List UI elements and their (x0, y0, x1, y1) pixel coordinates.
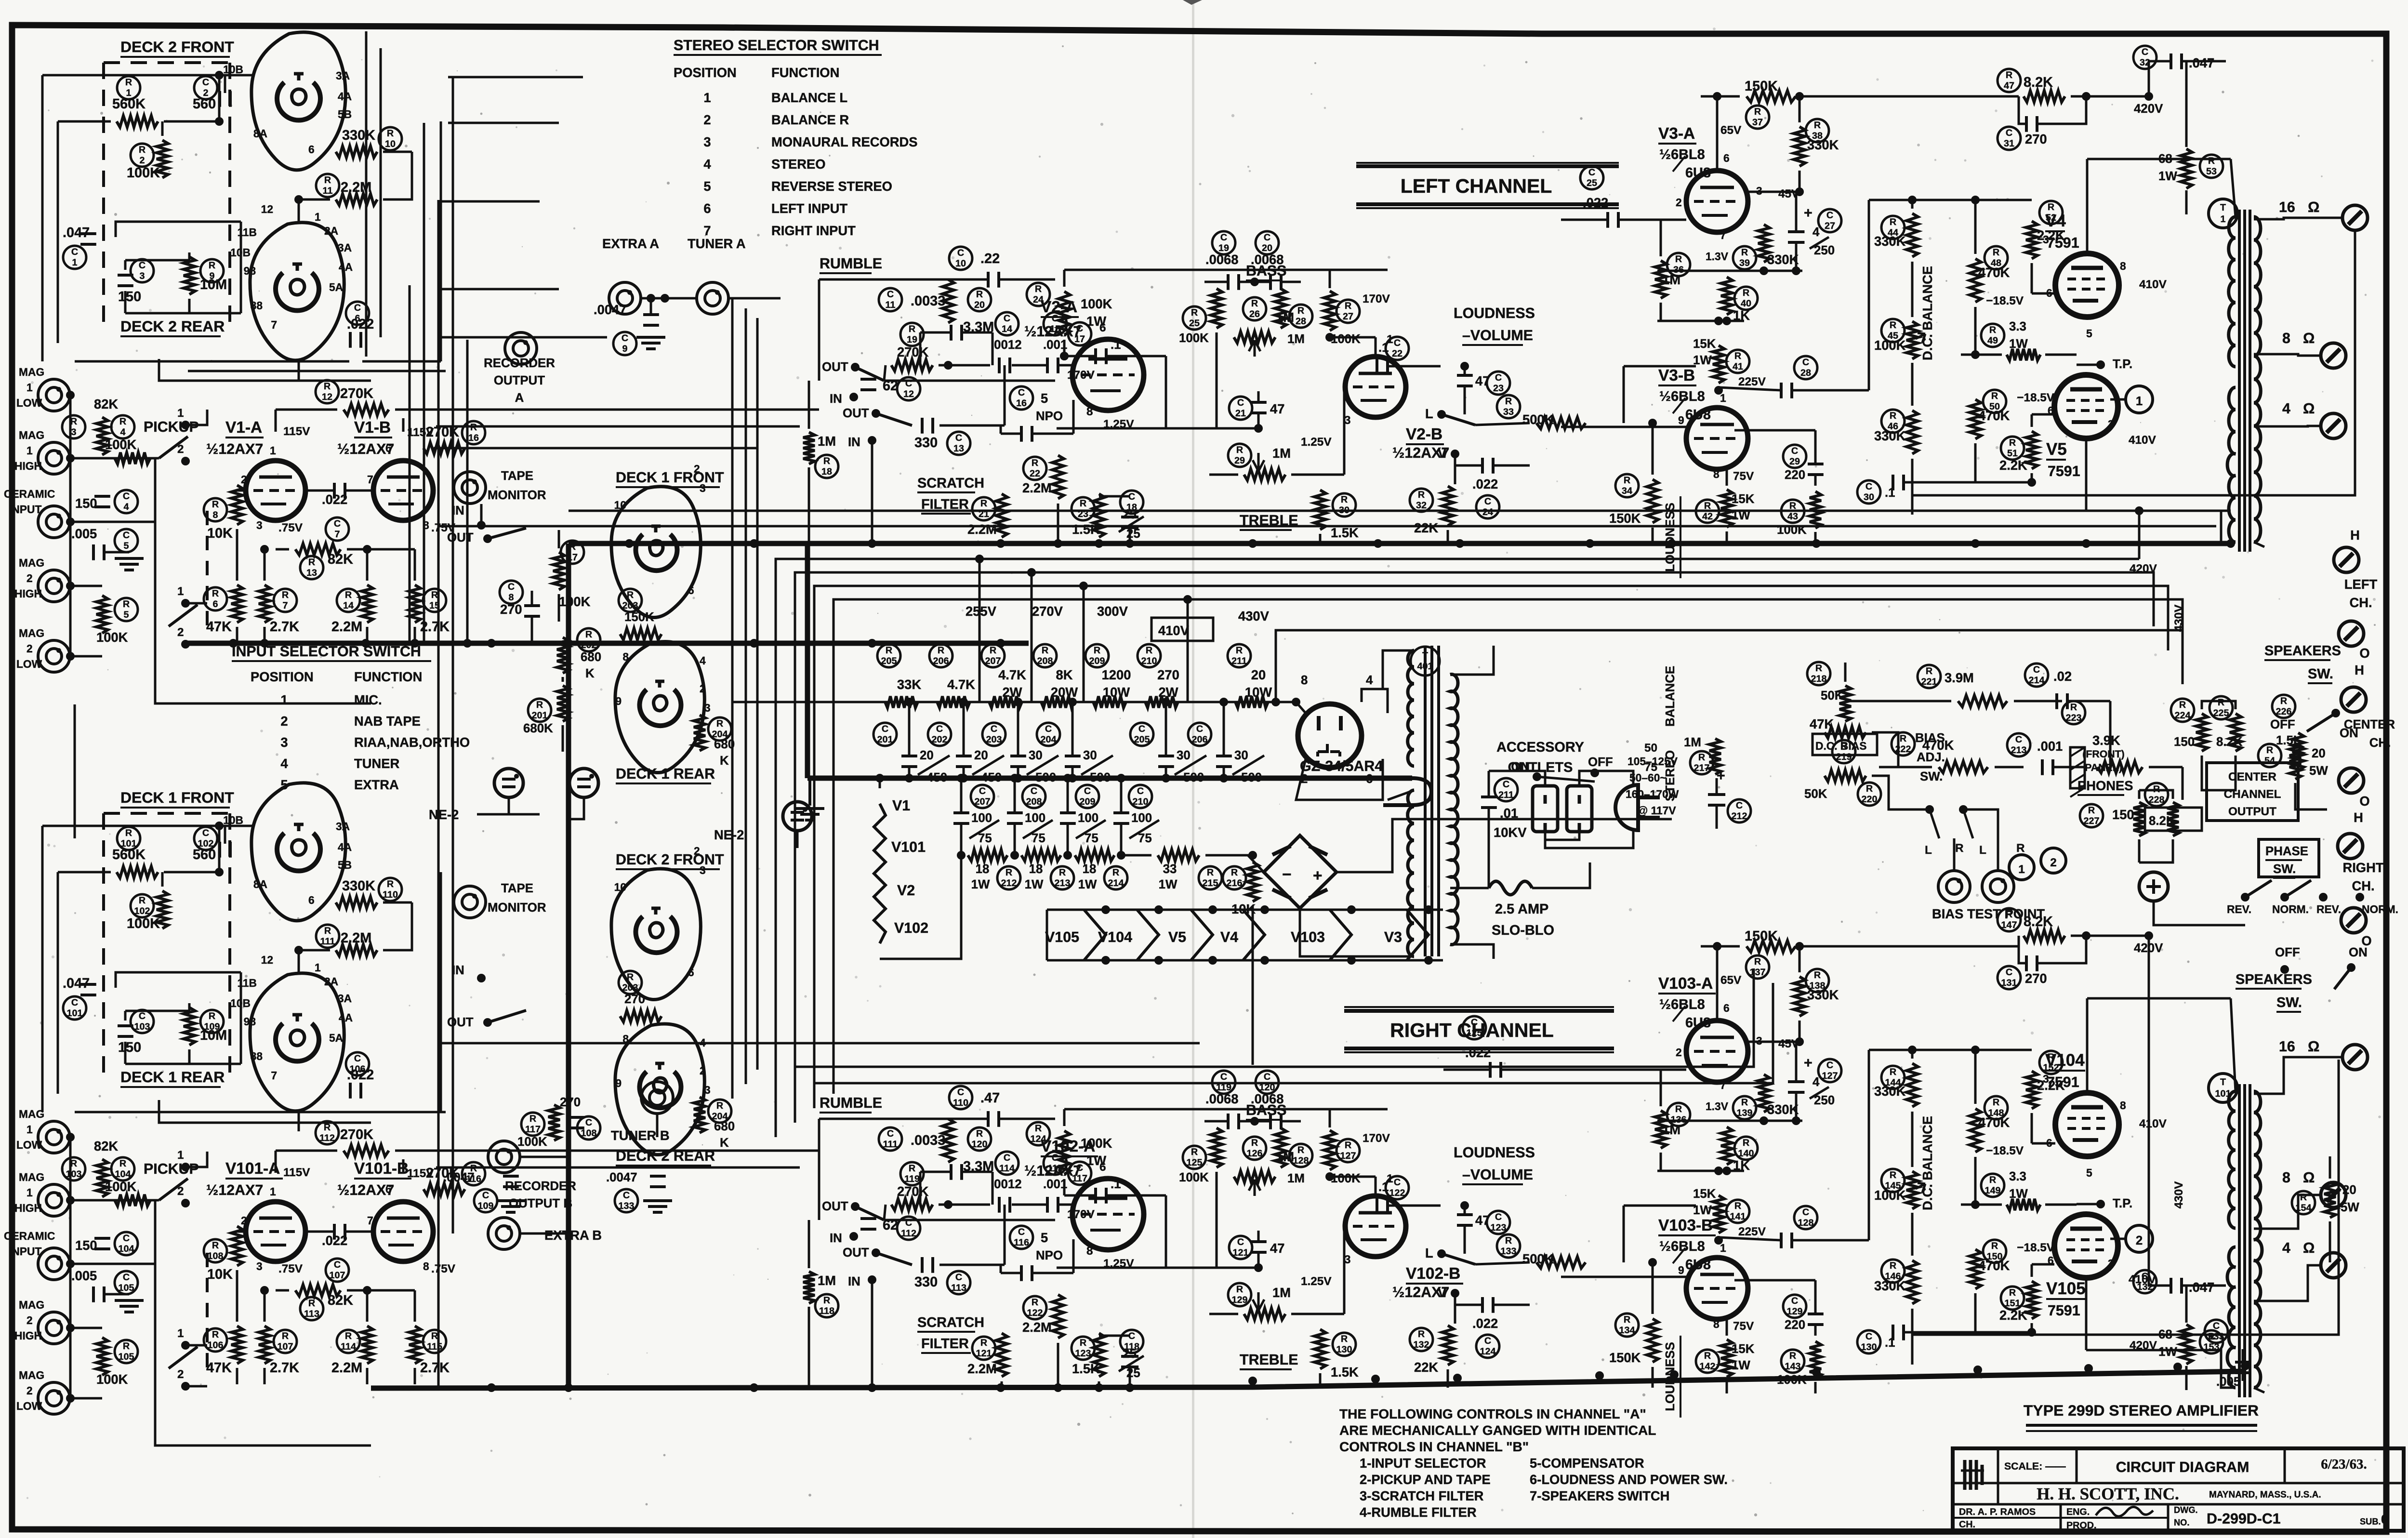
jack EXTRA B (488, 1218, 520, 1249)
lamp NE-2 no.1 (494, 769, 523, 797)
resistor R12 270K (316, 380, 339, 403)
svg-text:25: 25 (1123, 1347, 1137, 1361)
svg-text:216: 216 (1227, 878, 1243, 888)
svg-text:R: R (123, 1341, 130, 1352)
svg-text:270K: 270K (897, 345, 929, 359)
svg-text:75: 75 (1085, 832, 1098, 845)
svg-text:R: R (2179, 700, 2186, 710)
svg-text:R: R (2009, 438, 2016, 448)
resistor R127 100K (1324, 1130, 1336, 1170)
svg-text:75: 75 (1032, 832, 1045, 845)
svg-text:DECK 1 FRONT: DECK 1 FRONT (120, 789, 234, 806)
svg-text:150K: 150K (1609, 511, 1641, 526)
transformer T1 secondary winding (2254, 217, 2261, 542)
svg-text:125: 125 (1187, 1157, 1203, 1168)
wire GZ34 plate leads (1296, 702, 1306, 713)
svg-text:98: 98 (244, 265, 256, 277)
svg-text:560K: 560K (112, 96, 146, 112)
capacitor C16 5 NPO (1010, 386, 1033, 410)
svg-text:1.25V: 1.25V (1301, 436, 1332, 449)
svg-text:27: 27 (1825, 221, 1835, 231)
svg-text:98: 98 (244, 1015, 256, 1028)
wire feedback line (1057, 1267, 1258, 1269)
svg-text:114: 114 (341, 1341, 356, 1352)
svg-text:150: 150 (118, 289, 141, 305)
resistor R212 18 1W (968, 849, 1007, 861)
svg-text:INPUT SELECTOR SWITCH: INPUT SELECTOR SWITCH (232, 643, 421, 660)
resistor R136 1M (1667, 1103, 1690, 1126)
svg-text:R: R (585, 629, 592, 640)
svg-text:8: 8 (1301, 674, 1308, 687)
svg-text:115V: 115V (283, 1166, 310, 1179)
svg-text:226: 226 (2276, 706, 2292, 717)
svg-text:680: 680 (714, 1120, 735, 1133)
triode V102-B 1/2 12AX7 (1345, 1196, 1406, 1257)
transformer T101 ref (2209, 1074, 2237, 1102)
svg-text:O: O (2359, 794, 2369, 809)
svg-text:LOUDNESS: LOUDNESS (1664, 1342, 1677, 1411)
svg-text:47: 47 (1270, 1241, 1284, 1256)
svg-text:H. H. SCOTT, INC.: H. H. SCOTT, INC. (2037, 1485, 2179, 1503)
svg-text:T: T (2220, 1077, 2226, 1087)
svg-text:C: C (123, 491, 130, 502)
resistor R30 1.5K (1314, 490, 1326, 530)
svg-text:270: 270 (560, 1096, 581, 1109)
resistor R54 20 5W (2258, 744, 2281, 767)
svg-text:206: 206 (1192, 734, 1208, 745)
svg-text:−18.5V: −18.5V (2017, 1241, 2055, 1254)
svg-text:R: R (1900, 733, 1906, 744)
svg-text:7: 7 (1720, 229, 1726, 241)
svg-text:3.9M: 3.9M (1945, 670, 1974, 685)
svg-text:6: 6 (703, 201, 711, 216)
svg-text:−18.5V: −18.5V (2017, 391, 2055, 404)
svg-text:.47: .47 (980, 1090, 1000, 1106)
svg-text:30: 30 (1029, 749, 1043, 762)
svg-text:8: 8 (1086, 1245, 1093, 1258)
svg-text:47K: 47K (206, 619, 232, 635)
svg-text:8: 8 (2120, 260, 2126, 272)
svg-text:R: R (1890, 1170, 1896, 1180)
svg-text:V3-A: V3-A (1658, 125, 1695, 143)
capacitor C108 270 (577, 1116, 600, 1140)
svg-text:1.3V: 1.3V (1706, 250, 1729, 263)
svg-text:+: + (1313, 867, 1323, 885)
svg-text:.005: .005 (71, 526, 97, 541)
svg-text:100K: 100K (1081, 296, 1112, 311)
svg-text:3.3: 3.3 (2009, 1170, 2026, 1183)
svg-text:1W: 1W (1025, 878, 1044, 891)
resistor R6 47K (204, 587, 227, 610)
svg-text:R: R (1989, 1175, 1996, 1185)
svg-text:MAYNARD, MASS., U.S.A.: MAYNARD, MASS., U.S.A. (2209, 1490, 2321, 1500)
svg-text:1W: 1W (1693, 354, 1712, 367)
svg-text:C: C (1076, 1163, 1083, 1173)
resistor R148 470K (1985, 1096, 2008, 1119)
capacitor C211 .01 10KV (1495, 778, 1518, 801)
svg-text:3.3M: 3.3M (963, 319, 994, 335)
svg-text:C: C (139, 1011, 146, 1021)
svg-text:C: C (1394, 338, 1401, 348)
svg-text:330K: 330K (1874, 1084, 1906, 1099)
svg-text:CH.: CH. (2352, 878, 2374, 893)
svg-text:ADJ.: ADJ. (1917, 751, 1945, 764)
resistor R20 3.3M (942, 279, 954, 323)
svg-text:R: R (1236, 645, 1243, 656)
svg-text:5B: 5B (338, 859, 352, 871)
svg-text:3: 3 (700, 482, 706, 494)
wire bundle vertical left of tape monitor (409, 285, 411, 643)
svg-text:15K: 15K (1693, 1187, 1716, 1201)
resistor R2 100K (131, 144, 154, 167)
resistor R203 150K (619, 589, 642, 612)
svg-text:107: 107 (278, 1341, 293, 1352)
wire long horizontals under left channel (569, 510, 2231, 512)
svg-text:110: 110 (383, 889, 398, 900)
svg-text:130: 130 (1336, 1344, 1352, 1355)
svg-text:214: 214 (1108, 878, 1124, 888)
svg-text:SW.: SW. (2273, 862, 2296, 876)
ground power supply (808, 778, 811, 806)
svg-text:V4: V4 (1220, 929, 1238, 945)
capacitor C206 30/500 (1188, 723, 1211, 746)
svg-text:K: K (720, 754, 729, 768)
svg-text:STEREO: STEREO (771, 157, 826, 172)
svg-text:100K: 100K (1331, 332, 1361, 346)
svg-text:D.C. BIAS: D.C. BIAS (1815, 740, 1866, 752)
svg-text:19: 19 (907, 334, 917, 345)
resistor R140 1K (1734, 1137, 1758, 1160)
svg-text:.75V: .75V (278, 521, 303, 534)
svg-text:C: C (1137, 786, 1144, 796)
label D.C. BIAS (1813, 734, 1877, 755)
svg-text:24: 24 (1482, 507, 1493, 517)
svg-text:R: R (1341, 1334, 1348, 1344)
svg-text:3: 3 (704, 1084, 711, 1096)
transformer T1 primary windings (2229, 217, 2236, 367)
svg-text:5: 5 (2086, 327, 2092, 340)
svg-text:R: R (2009, 1287, 2016, 1298)
capacitor C117 .1 (1068, 1162, 1091, 1185)
svg-text:5B: 5B (338, 108, 352, 120)
svg-text:2.2M: 2.2M (331, 1360, 362, 1376)
resistor R132 22K (1410, 1328, 1433, 1351)
svg-text:R: R (1251, 1138, 1258, 1148)
resistor R39 330K (1733, 246, 1756, 269)
svg-text:75V: 75V (1733, 1320, 1754, 1333)
svg-text:4A: 4A (339, 1011, 353, 1024)
svg-text:OUT: OUT (822, 360, 848, 374)
svg-text:FUNCTION: FUNCTION (771, 65, 839, 80)
capacitor 10C4 150 (94, 1238, 110, 1249)
svg-text:C: C (1588, 167, 1595, 178)
resistor R118 1M (803, 1272, 815, 1303)
bridge rectifier bias supply (1264, 835, 1336, 908)
svg-text:3: 3 (2043, 1073, 2049, 1085)
svg-text:TAPE: TAPE (501, 882, 533, 895)
resistor R104 100K (111, 1157, 134, 1180)
svg-text:C: C (354, 1053, 361, 1064)
resistor R46 330K (1881, 410, 1905, 433)
capacitor C116 5 NPO (1010, 1226, 1033, 1249)
wire right channel loudness to driver (1619, 1059, 1696, 1206)
svg-text:4A: 4A (338, 841, 352, 853)
svg-text:220: 220 (1785, 468, 1805, 482)
svg-text:CH.: CH. (1959, 1519, 1975, 1530)
svg-text:150: 150 (75, 496, 97, 511)
wire B+ chain (732, 701, 1296, 703)
svg-text:20: 20 (974, 749, 988, 762)
svg-text:207: 207 (985, 656, 1001, 666)
svg-text:C: C (882, 724, 888, 734)
svg-text:DWG.: DWG. (2174, 1505, 2198, 1515)
svg-text:R: R (212, 1240, 219, 1251)
resistor R15 2.7K (423, 589, 446, 612)
test point circled 2 (2041, 848, 2066, 873)
accessory outlet socket 2 (1567, 786, 1592, 832)
svg-text:R: R (324, 175, 331, 186)
svg-text:R: R (70, 1158, 77, 1169)
capacitor C125 .022 (1463, 1016, 1486, 1039)
svg-text:1M: 1M (1287, 1172, 1305, 1185)
svg-text:255V: 255V (966, 604, 997, 619)
svg-text:7: 7 (271, 1069, 277, 1082)
svg-text:C: C (334, 518, 341, 529)
svg-text:MAG: MAG (19, 1299, 44, 1311)
svg-text:1M: 1M (1684, 736, 1701, 749)
svg-text:.01: .01 (1500, 806, 1518, 821)
svg-text:4: 4 (124, 502, 129, 512)
capacitor C10 .22 (949, 247, 972, 270)
rotary switch wafer front (251, 783, 345, 921)
svg-text:100K: 100K (1081, 1136, 1112, 1151)
capacitor C13 330 (922, 418, 933, 434)
capacitor C207 100/75 (971, 785, 994, 808)
svg-text:54: 54 (2264, 756, 2275, 766)
svg-text:NPO: NPO (1036, 1249, 1063, 1262)
svg-text:C: C (1826, 1060, 1833, 1071)
svg-text:V105: V105 (1045, 929, 1079, 945)
svg-text:1M: 1M (818, 434, 836, 449)
svg-text:L: L (1925, 844, 1932, 857)
capacitor C201 20/450 (873, 723, 897, 746)
svg-text:R: R (1991, 1241, 1998, 1251)
svg-text:INPUT: INPUT (9, 503, 41, 516)
svg-text:9: 9 (1678, 414, 1684, 426)
wire right channel B+ feeds (776, 1137, 1029, 1138)
svg-text:330: 330 (914, 1274, 938, 1290)
svg-text:2.2M: 2.2M (967, 1361, 997, 1376)
capacitor C203 30/500 (982, 723, 1006, 746)
svg-text:C: C (1076, 323, 1083, 334)
svg-text:MAG: MAG (19, 1108, 44, 1120)
svg-text:SW.: SW. (2308, 666, 2333, 682)
resistor R45 100K (1881, 319, 1905, 342)
wire phones network (2139, 790, 2173, 799)
svg-text:129: 129 (1787, 1306, 1803, 1317)
svg-text:250: 250 (1814, 1094, 1835, 1107)
resistor R134 150K (1615, 1313, 1639, 1337)
svg-text:29: 29 (1234, 455, 1245, 466)
resistor R206 4.7K (929, 644, 953, 667)
svg-text:4A: 4A (338, 90, 352, 103)
svg-text:SW.: SW. (1920, 770, 1943, 783)
svg-text:14: 14 (1002, 324, 1012, 334)
resistor R13 82K (295, 544, 341, 555)
center channel jack (2139, 872, 2168, 901)
svg-text:330K: 330K (1767, 1102, 1799, 1117)
svg-text:11: 11 (886, 300, 896, 310)
svg-text:680: 680 (581, 650, 601, 664)
resistor R205 33K (877, 644, 900, 667)
resistor R145 100K (1881, 1169, 1905, 1192)
svg-text:3: 3 (703, 134, 711, 149)
svg-text:DECK 2 REAR: DECK 2 REAR (120, 318, 225, 335)
svg-text:LOUDNESS: LOUDNESS (1454, 305, 1535, 321)
svg-text:10W: 10W (1103, 685, 1130, 700)
wire loudness to driver A (1652, 528, 1653, 544)
svg-text:209: 209 (1089, 656, 1105, 666)
svg-text:2: 2 (694, 463, 700, 475)
svg-text:18: 18 (1083, 862, 1097, 876)
wire rumble cap loop (920, 1171, 951, 1173)
svg-text:C: C (955, 433, 962, 443)
capacitor C128 .1 (1794, 1206, 1817, 1229)
svg-text:CERAMIC: CERAMIC (4, 488, 55, 500)
wire heater resistor row (961, 855, 1121, 856)
svg-text:330K: 330K (342, 878, 375, 894)
svg-text:143: 143 (1785, 1361, 1801, 1372)
svg-text:L: L (1425, 406, 1433, 421)
svg-text:V2-B: V2-B (1406, 425, 1442, 443)
wire V103 B+ feeds (1609, 992, 1653, 993)
svg-text:OFF: OFF (2270, 718, 2295, 731)
svg-text:8: 8 (423, 1260, 429, 1273)
svg-text:100: 100 (1078, 811, 1098, 825)
svg-text:NE-2: NE-2 (429, 807, 459, 822)
svg-text:2: 2 (26, 572, 33, 584)
capacitor C3 150 (131, 259, 154, 282)
svg-text:2.7K: 2.7K (270, 1360, 299, 1376)
svg-text:C: C (957, 248, 964, 258)
capacitor C214 .02 (2025, 663, 2048, 687)
svg-text:7-SPEAKERS SWITCH: 7-SPEAKERS SWITCH (1530, 1488, 1669, 1503)
wire V3-B grid (1561, 1276, 1686, 1278)
svg-text:115V: 115V (283, 425, 310, 438)
resistor R51 2.2K (2001, 437, 2024, 460)
svg-text:1: 1 (26, 1186, 33, 1199)
svg-text:206: 206 (933, 656, 949, 666)
svg-text:MAG: MAG (19, 627, 44, 639)
svg-text:410V: 410V (2139, 278, 2167, 291)
capacitor C133 .005 (2205, 1320, 2228, 1343)
svg-text:R: R (2208, 156, 2215, 166)
resistor R24 100K 1W (1027, 283, 1050, 306)
svg-text:C: C (1394, 1177, 1401, 1188)
resistor R120 3.3M (942, 1119, 954, 1162)
svg-text:R: R (1418, 490, 1425, 500)
svg-text:680K: 680K (523, 722, 553, 735)
svg-text:OUT: OUT (822, 1200, 848, 1213)
capacitor C202 20/450 (928, 723, 951, 746)
svg-text:R: R (1989, 325, 1996, 335)
svg-text:V101-A: V101-A (225, 1160, 280, 1178)
wire V4 plate (2086, 159, 2089, 253)
wire power ground bus (807, 776, 1412, 781)
svg-text:.0068: .0068 (1205, 252, 1238, 267)
svg-text:R: R (212, 499, 219, 510)
svg-text:MONITOR: MONITOR (488, 489, 546, 502)
svg-text:MAG: MAG (19, 1369, 44, 1381)
svg-text:IN: IN (848, 1275, 860, 1288)
svg-text:10K: 10K (207, 1267, 233, 1282)
svg-text:100K: 100K (1874, 1188, 1906, 1203)
svg-text:1M: 1M (1272, 446, 1291, 461)
svg-text:330K: 330K (1874, 234, 1906, 249)
svg-text:NO.: NO. (2174, 1517, 2189, 1527)
svg-text:10: 10 (614, 881, 626, 893)
svg-text:10: 10 (614, 499, 626, 511)
resistor R7 2.7K (274, 589, 297, 612)
svg-text:126: 126 (1247, 1148, 1263, 1159)
svg-text:212: 212 (1732, 811, 1747, 822)
svg-text:6: 6 (308, 143, 315, 156)
terminal O right channel (2341, 908, 2366, 933)
svg-text:R: R (627, 590, 634, 600)
svg-text:132: 132 (1414, 1339, 1429, 1350)
svg-text:–VOLUME: –VOLUME (1462, 1167, 1533, 1183)
svg-text:16: 16 (2279, 1038, 2295, 1055)
svg-text:R: R (1890, 411, 1896, 421)
svg-text:R: R (1231, 867, 1238, 878)
svg-text:75: 75 (1644, 761, 1657, 774)
svg-text:105: 105 (119, 1352, 134, 1362)
dashed gang box (104, 63, 230, 324)
capacitor C204 30/500 (1037, 723, 1060, 746)
svg-text:C: C (1484, 1336, 1491, 1346)
resistor R50 470K (1983, 390, 2006, 413)
svg-text:R: R (209, 1011, 215, 1021)
svg-text:7591: 7591 (2048, 1302, 2080, 1319)
svg-text:R: R (536, 700, 543, 710)
svg-text:POSITION: POSITION (251, 669, 314, 684)
svg-text:R: R (716, 718, 723, 729)
svg-text:10: 10 (955, 258, 966, 269)
wire rumble box top (819, 278, 988, 281)
svg-text:REV.: REV. (2316, 903, 2341, 915)
wire plate feed (1063, 1109, 1066, 1126)
capacitor C31 270 (1998, 127, 2021, 150)
resistor R122 2.2M (1023, 1296, 1046, 1319)
svg-text:FUNCTION: FUNCTION (354, 669, 422, 684)
svg-text:TAPE: TAPE (501, 469, 533, 483)
resistor R19 270K (900, 323, 924, 346)
svg-text:5W: 5W (2309, 764, 2328, 778)
svg-text:BALANCE L: BALANCE L (771, 90, 847, 105)
svg-text:1W: 1W (2158, 170, 2177, 183)
wire rumble box top (819, 1118, 988, 1120)
lamp NE-2 no.2 (569, 769, 598, 797)
rotary switch wafer rear (250, 973, 344, 1111)
svg-text:134: 134 (1619, 1325, 1635, 1336)
resistor R5 100K (96, 596, 108, 633)
svg-text:22K: 22K (1414, 520, 1438, 535)
resistor R218 47K (1807, 662, 1830, 685)
svg-text:RUMBLE: RUMBLE (820, 1095, 882, 1111)
rotary switch DECK 1 REAR (615, 642, 704, 773)
svg-text:ENG.: ENG. (2066, 1507, 2090, 1517)
resistor R216 10K (1223, 866, 1246, 889)
